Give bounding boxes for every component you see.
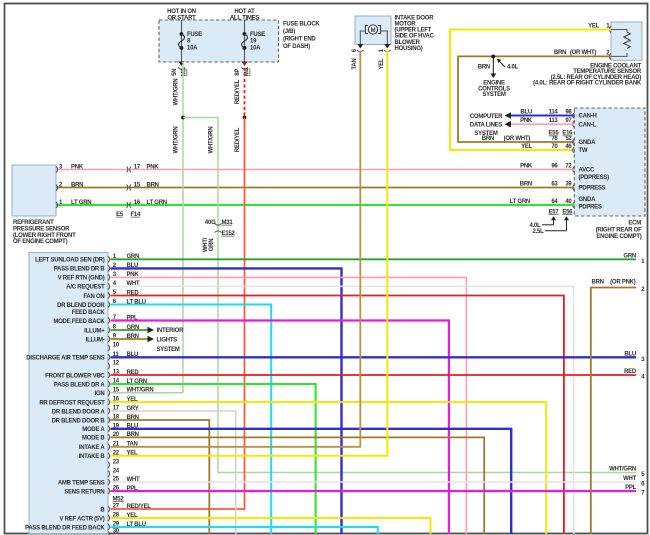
- label PNK 113 97: [520, 118, 572, 124]
- svg-text:76: 76: [551, 136, 558, 142]
- svg-text:70: 70: [551, 144, 558, 150]
- wire RED pin13 to right edge: [111, 374, 637, 376]
- wire LT GRN refrigerant sensor to ECM: [56, 204, 574, 206]
- ECM box: [574, 108, 645, 216]
- svg-text:LT GRN: LT GRN: [147, 200, 167, 206]
- control head pin bracket 13: [108, 372, 110, 378]
- svg-text:(RIGHT REAR OF: (RIGHT REAR OF: [596, 227, 642, 233]
- svg-text:ILLUM+: ILLUM+: [84, 328, 105, 334]
- connector E57 label: [529, 209, 559, 229]
- svg-text:IGN: IGN: [95, 391, 105, 397]
- svg-text:INTAKE B: INTAKE B: [79, 454, 106, 460]
- control head pin bracket 22: [108, 453, 110, 459]
- svg-text:MODE FEED BACK: MODE FEED BACK: [53, 319, 105, 325]
- right edge label GRN pin 1: [623, 253, 645, 265]
- wire LT BLU pin6 down: [111, 305, 272, 535]
- wire RED/YEL to control head B: [111, 118, 245, 510]
- svg-text:96: 96: [551, 163, 558, 169]
- svg-text:ECM: ECM: [628, 221, 641, 227]
- svg-text:12: 12: [113, 361, 120, 367]
- svg-text:SYSTEM: SYSTEM: [157, 347, 180, 353]
- fuse 19 symbol: [242, 32, 248, 50]
- wire BRN pin18 down: [111, 420, 210, 534]
- svg-text:10A: 10A: [250, 46, 261, 52]
- svg-text:M: M: [371, 28, 376, 34]
- control head pin bracket 2: [108, 265, 110, 271]
- connector M31 E152 labels: [205, 220, 236, 237]
- svg-text:97: 97: [565, 118, 572, 124]
- svg-text:GRN: GRN: [623, 253, 636, 259]
- svg-text:ILLUM-: ILLUM-: [86, 337, 105, 343]
- svg-text:DR BLEND DOOR: DR BLEND DOOR: [57, 303, 105, 309]
- svg-text:DR BLEND DOOR B: DR BLEND DOOR B: [52, 418, 106, 424]
- wire BRN (OR PNK) right edge pin2 down: [591, 288, 636, 535]
- svg-text:(J/B): (J/B): [283, 29, 295, 35]
- connector M4 exit symbol: [241, 62, 248, 70]
- svg-text:19: 19: [250, 39, 257, 45]
- svg-text:SENS RETURN: SENS RETURN: [64, 489, 104, 495]
- svg-text:PNK: PNK: [147, 164, 160, 170]
- pin number 2 and label BRN: [59, 182, 83, 188]
- signal label DR BLEND DOOR FEED BACK: [57, 303, 105, 316]
- svg-text:F14: F14: [131, 212, 142, 218]
- svg-text:WHT: WHT: [623, 476, 636, 482]
- ECM pin label GNDA PDPRES: [579, 197, 602, 210]
- control head pin bracket 16: [108, 399, 110, 405]
- control head pin bracket 18: [108, 417, 110, 423]
- wire LT GRN pin14 down: [111, 384, 316, 534]
- wire BLU pin19 down: [111, 429, 512, 534]
- pin number 1 and label LT GRN: [59, 200, 91, 206]
- arrow CAN-L to computer data lines: [505, 121, 512, 128]
- label FUSE BLOCK (J/B) (RIGHT END OF DASH): [283, 22, 320, 51]
- label PNK 96 72: [520, 163, 572, 169]
- sensor pin bracket 1: [56, 202, 58, 208]
- svg-text:WHT/: WHT/: [203, 237, 209, 252]
- wire YEL pin22 to intake motor: [111, 51, 388, 456]
- right edge label WHT pin 6: [623, 476, 645, 488]
- wire WHT pin4 down: [111, 286, 574, 534]
- svg-text:E56: E56: [562, 209, 573, 215]
- svg-text:WHT/GRN: WHT/GRN: [609, 467, 636, 473]
- svg-text:FUSE: FUSE: [250, 32, 265, 38]
- svg-text:A/C REQUEST: A/C REQUEST: [66, 285, 105, 291]
- svg-text:COMPUTER: COMPUTER: [470, 114, 503, 120]
- svg-text:72: 72: [565, 163, 572, 169]
- control head pin bracket 5: [108, 292, 110, 298]
- ECT resistor symbol: [611, 30, 630, 57]
- label COMPUTER DATA LINES SYSTEM: [470, 114, 503, 137]
- right edge label PPL pin 7: [625, 485, 645, 497]
- wire BRN refrigerant sensor to ECM: [56, 187, 574, 189]
- svg-text:(LOWER RIGHT FRONT: (LOWER RIGHT FRONT: [13, 233, 76, 239]
- svg-text:YEL: YEL: [588, 23, 600, 29]
- svg-text:BRN: BRN: [592, 280, 604, 286]
- fuse 8 symbol: [179, 32, 185, 50]
- svg-text:FRONT BLOWER VBC: FRONT BLOWER VBC: [45, 373, 105, 379]
- control head pin bracket 14: [108, 381, 110, 387]
- 4.0L annotation arrow: [497, 59, 519, 71]
- control head pin bracket 19: [108, 426, 110, 432]
- wire GRN pin1 to right edge: [111, 258, 637, 260]
- svg-text:GNDA: GNDA: [579, 140, 597, 146]
- svg-text:AVCC: AVCC: [579, 168, 595, 174]
- arrow CAN-H to computer data lines: [505, 112, 512, 119]
- svg-text:REFRIGERANT: REFRIGERANT: [13, 220, 54, 226]
- svg-text:16: 16: [134, 200, 141, 206]
- wire BRN pin20 down: [111, 437, 485, 534]
- svg-text:PDPRES: PDPRES: [579, 205, 602, 211]
- ECM pin bracket GNDA: [573, 139, 575, 145]
- ECM pin bracket AVCC: [573, 166, 575, 172]
- control head pin bracket 27: [108, 506, 110, 512]
- svg-text:INTAKE A: INTAKE A: [79, 445, 106, 451]
- wire RED pin5 down: [111, 296, 564, 535]
- svg-text:4.0L: 4.0L: [507, 64, 519, 70]
- ECM pin bracket CAN-H: [573, 112, 575, 118]
- svg-text:BRN: BRN: [71, 182, 83, 188]
- control head pin bracket 29: [108, 524, 110, 530]
- svg-text:M52: M52: [113, 496, 125, 502]
- svg-text:10: 10: [113, 343, 120, 349]
- svg-text:FAN ON: FAN ON: [83, 294, 104, 300]
- label INTERIOR LIGHTS SYSTEM: [157, 328, 185, 353]
- svg-text:PPL: PPL: [625, 485, 637, 491]
- svg-text:MODE A: MODE A: [82, 427, 105, 433]
- inline connector E5/F14 bracket BRN: [127, 184, 128, 190]
- wire BLU CAN-H: [511, 115, 574, 117]
- svg-text:PASS BLEND DR A: PASS BLEND DR A: [54, 382, 106, 388]
- ECM pin bracket CAN-L: [573, 121, 575, 127]
- svg-text:PASS BLEND DR FEED BACK: PASS BLEND DR FEED BACK: [25, 525, 105, 531]
- label ENGINE COOLANT TEMPERATURE SENSOR: [533, 64, 642, 87]
- svg-text:24: 24: [113, 469, 120, 475]
- svg-text:V REF ACTR (5V): V REF ACTR (5V): [59, 516, 104, 522]
- svg-text:PDPRESS: PDPRESS: [579, 186, 606, 192]
- control head pin bracket 8: [108, 327, 110, 333]
- svg-text:YEL: YEL: [521, 144, 533, 150]
- svg-text:8P: 8P: [235, 69, 241, 76]
- svg-text:V REF RTN (GND): V REF RTN (GND): [58, 276, 105, 282]
- fuse block J/B box: [159, 20, 279, 62]
- svg-text:52: 52: [565, 136, 572, 142]
- svg-text:PASS BLEND DR B: PASS BLEND DR B: [54, 267, 106, 273]
- label ENGINE CONTROLS SYSTEM: [478, 81, 510, 99]
- wire BLU pin2 down: [111, 268, 342, 534]
- wire PNK refrigerant sensor to ECM: [56, 169, 574, 171]
- junction dot RED/YEL: [243, 116, 247, 120]
- svg-text:BRN: BRN: [147, 182, 159, 188]
- label HOT IN ON OR START: [167, 9, 196, 22]
- svg-text:DISCHARGE AIR TEMP SENS: DISCHARGE AIR TEMP SENS: [26, 356, 105, 362]
- wire WHT/GRN label below connector: [203, 237, 215, 252]
- svg-text:HOUSING): HOUSING): [395, 46, 423, 52]
- control head pin bracket 7: [108, 317, 110, 323]
- svg-text:E5: E5: [116, 212, 124, 218]
- svg-text:(UPPER LEFT: (UPPER LEFT: [395, 28, 432, 34]
- svg-text:PNK: PNK: [71, 164, 84, 170]
- A/C control head box: [29, 253, 108, 534]
- svg-text:HOT IN ON: HOT IN ON: [167, 9, 196, 15]
- svg-text:E57: E57: [549, 209, 560, 215]
- label YEL 1: [588, 23, 610, 29]
- svg-text:WHT/GRN: WHT/GRN: [208, 127, 214, 154]
- ECT sensor pin 1 bracket: [609, 26, 611, 32]
- wire PNK pin3 down: [111, 277, 467, 534]
- right edge label RED pin 4: [624, 369, 645, 381]
- svg-text:PNK: PNK: [520, 118, 533, 124]
- svg-text:BRN: BRN: [520, 181, 532, 187]
- control head pin bracket 10: [108, 345, 110, 351]
- svg-text:40G: 40G: [205, 220, 216, 226]
- engine coolant temperature sensor box: [611, 22, 642, 60]
- control head pin bracket 25: [108, 479, 110, 485]
- wire WHT/GRN from fuse 8: [182, 62, 184, 393]
- ECM pin bracket PDPRESS: [573, 184, 575, 190]
- inline connector E5/F14 bracket LT GRN: [127, 202, 128, 208]
- motor pin 6 exit symbol: [357, 44, 364, 52]
- svg-text:BRN: BRN: [482, 136, 494, 142]
- control head pin bracket 6: [108, 301, 110, 307]
- svg-text:LEFT SUNLOAD SEN (DR): LEFT SUNLOAD SEN (DR): [35, 258, 105, 264]
- label BRN (OR WHT) 2: [554, 50, 610, 56]
- label ECM location: [596, 221, 642, 240]
- control head pin bracket 23: [108, 462, 110, 468]
- svg-text:TW: TW: [579, 148, 588, 154]
- svg-text:DATA LINES: DATA LINES: [470, 122, 503, 128]
- intake door motor box: [355, 16, 391, 45]
- wire BRN from ECT to ECM GNDA: [458, 56, 611, 142]
- svg-text:2.5L: 2.5L: [532, 229, 544, 235]
- pin number 17 and label PNK after connector: [134, 164, 160, 170]
- svg-text:RED/YEL: RED/YEL: [127, 504, 152, 510]
- wire YEL pin28 down: [111, 518, 431, 534]
- wire YEL pin16 down: [111, 402, 547, 534]
- control head pin bracket 15: [108, 390, 110, 396]
- svg-text:10A: 10A: [187, 46, 198, 52]
- svg-text:LT GRN: LT GRN: [71, 200, 91, 206]
- svg-text:RED/YEL: RED/YEL: [235, 127, 241, 152]
- inline connector E5/F14 bracket PNK: [127, 166, 128, 172]
- wire TAN pin21 to intake motor: [111, 51, 361, 447]
- svg-text:MODE B: MODE B: [82, 436, 105, 442]
- right edge label WHT/GRN pin 5: [609, 467, 645, 479]
- svg-text:LIGHTS: LIGHTS: [157, 338, 178, 344]
- svg-text:17: 17: [134, 164, 141, 170]
- svg-text:63: 63: [551, 181, 558, 187]
- wire WHT/GRN pin15 ign: [111, 392, 184, 394]
- svg-text:FUSE: FUSE: [187, 32, 202, 38]
- svg-text:113: 113: [549, 118, 559, 124]
- svg-text:DR BLEND DOOR A: DR BLEND DOOR A: [52, 409, 106, 415]
- control head pin bracket 11: [108, 354, 110, 360]
- control head pin bracket 26: [108, 488, 110, 494]
- svg-text:39: 39: [565, 181, 572, 187]
- svg-text:27: 27: [113, 504, 120, 510]
- ECM pin label AVCC (PDPRESS): [579, 168, 610, 182]
- svg-text:98: 98: [565, 109, 572, 115]
- control head pin bracket 21: [108, 444, 110, 450]
- wire PNK CAN-L: [511, 123, 574, 125]
- ECT sensor pin 2 bracket: [609, 53, 611, 59]
- junction dot WHT/GRN: [181, 116, 185, 120]
- svg-text:BLOWER: BLOWER: [395, 40, 421, 46]
- connector E55 E16 labels: [549, 131, 574, 137]
- wire BLU pin11 to right edge: [111, 356, 637, 358]
- wire RED/YEL dashed from fuse 19: [244, 62, 246, 118]
- svg-text:23: 23: [113, 460, 120, 466]
- right edge label BLU pin 3: [624, 351, 645, 363]
- svg-text:114: 114: [549, 109, 559, 115]
- svg-text:(4.0L: REAR OF RIGHT CYLINDER: (4.0L: REAR OF RIGHT CYLINDER BANK: [533, 81, 642, 87]
- control head pin bracket 3: [108, 274, 110, 280]
- svg-text:WHT/GRN: WHT/GRN: [174, 127, 180, 154]
- wire LT BLU pin29 down: [111, 527, 378, 534]
- svg-text:OF DASH): OF DASH): [283, 44, 310, 50]
- motor M1 symbol: [360, 25, 387, 45]
- svg-text:MOTOR: MOTOR: [395, 22, 417, 28]
- control head pin bracket 12: [108, 363, 110, 369]
- svg-text:BLU: BLU: [624, 351, 636, 357]
- motor pin 1 exit symbol: [384, 44, 391, 52]
- wire GRY pin17 down: [111, 411, 236, 534]
- fuse 8 value label: [187, 32, 202, 52]
- control head pin bracket 20: [108, 434, 110, 440]
- control head pin bracket 1: [108, 256, 110, 262]
- control head pin bracket 17: [108, 408, 110, 414]
- junction dot BRN engine controls: [491, 55, 495, 59]
- ECM pin bracket GNDA: [573, 202, 575, 208]
- sensor pin bracket 3: [56, 166, 58, 172]
- wire PPL pin26 to right edge: [111, 490, 637, 492]
- control head pin bracket 24: [108, 471, 110, 477]
- svg-text:CAN-L: CAN-L: [579, 122, 597, 128]
- right edge label BRN (OR PNK) pin 2: [592, 280, 646, 293]
- svg-text:INTERIOR: INTERIOR: [157, 328, 185, 334]
- svg-text:WHT/GRN: WHT/GRN: [174, 79, 180, 106]
- svg-text:RED/YEL: RED/YEL: [235, 79, 241, 104]
- svg-text:(OR WHT): (OR WHT): [504, 136, 531, 142]
- label BRN (OR WHT) 76 52: [482, 136, 573, 142]
- svg-text:30: 30: [113, 529, 120, 535]
- ECM pin bracket TW: [573, 147, 575, 153]
- connector M3 exit symbol: [178, 62, 185, 70]
- svg-text:YEL: YEL: [379, 58, 385, 70]
- control head pin bracket 4: [108, 283, 110, 289]
- svg-text:(OR WHT): (OR WHT): [570, 50, 597, 56]
- control head pin bracket 28: [108, 515, 110, 521]
- svg-text:46: 46: [565, 144, 572, 150]
- label LT GRN 64 40: [510, 199, 573, 205]
- label BRN 63 39: [520, 181, 573, 187]
- svg-text:FEED BACK: FEED BACK: [72, 310, 106, 316]
- svg-text:M31: M31: [222, 220, 234, 226]
- svg-text:CAN-H: CAN-H: [579, 114, 597, 120]
- svg-text:SIDE OF HVAC: SIDE OF HVAC: [395, 34, 435, 40]
- fuse 8 lead wires: [181, 20, 183, 62]
- connector E5 F14 names: [116, 212, 141, 218]
- label INTAKE DOOR MOTOR location: [395, 16, 435, 52]
- svg-text:BLU: BLU: [520, 109, 532, 115]
- svg-text:PNK: PNK: [520, 163, 533, 169]
- label BLU 114 98: [520, 109, 572, 115]
- svg-text:OF ENGINE COMPT): OF ENGINE COMPT): [13, 239, 68, 245]
- control head pin bracket 9: [108, 336, 110, 342]
- svg-text:BRN: BRN: [554, 50, 566, 56]
- svg-text:RED: RED: [624, 369, 637, 375]
- label REFRIGERANT PRESSURE SENSOR: [13, 220, 76, 245]
- connector E56 label: [532, 209, 573, 235]
- svg-text:15: 15: [134, 182, 141, 188]
- pin number 16 and label LT GRN after connector: [134, 200, 167, 206]
- svg-text:(OR PNK): (OR PNK): [610, 280, 636, 286]
- wire PPL pin7 down: [111, 321, 449, 535]
- svg-text:HOT AT: HOT AT: [234, 9, 255, 15]
- wire WHT pin25 to right edge: [111, 481, 637, 483]
- svg-text:SYSTEM: SYSTEM: [482, 92, 505, 98]
- refrigerant pressure sensor box: [12, 165, 56, 216]
- wire WHT/GRN branch to x218: [183, 118, 636, 473]
- svg-text:BRN: BRN: [478, 64, 490, 70]
- svg-text:(RIGHT END: (RIGHT END: [283, 37, 316, 43]
- label YEL 70 46: [521, 144, 572, 150]
- svg-text:M4: M4: [245, 67, 251, 76]
- svg-text:ENGINE COMPT): ENGINE COMPT): [596, 234, 641, 240]
- pin number 15 and label BRN after connector: [134, 182, 159, 188]
- svg-text:E152: E152: [222, 231, 236, 237]
- svg-text:RR DEFROST REQUEST: RR DEFROST REQUEST: [39, 400, 105, 406]
- svg-text:FUSE BLOCK: FUSE BLOCK: [283, 22, 320, 28]
- wire BRN pin9 illum-: [111, 336, 155, 343]
- fuse 19 lead wires: [244, 20, 246, 62]
- fuse 19 value label: [250, 32, 265, 52]
- svg-text:(PDPRESS): (PDPRESS): [579, 175, 610, 181]
- sensor pin bracket 2: [56, 184, 58, 190]
- label HOT AT ALL TIMES: [230, 9, 260, 22]
- svg-text:5N: 5N: [172, 69, 178, 76]
- pin number 3 and label PNK: [59, 164, 84, 170]
- control head pin bracket 30: [108, 531, 110, 535]
- svg-text:PRESSURE SENSOR: PRESSURE SENSOR: [13, 226, 70, 232]
- wire YEL from ECT to ECM TW: [450, 30, 611, 151]
- svg-text:GNDA: GNDA: [579, 197, 597, 203]
- arrow to ENGINE CONTROLS SYSTEM: [490, 56, 496, 78]
- svg-text:GRN: GRN: [209, 239, 215, 252]
- svg-text:TAN: TAN: [352, 58, 358, 69]
- svg-text:AMB TEMP SENS: AMB TEMP SENS: [58, 480, 105, 486]
- wire GRN pin8 illum+: [111, 327, 155, 334]
- connector M31/E152 symbol: [215, 224, 222, 233]
